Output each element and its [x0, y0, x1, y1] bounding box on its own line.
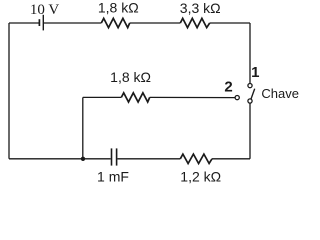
svg-text:1,2 kΩ: 1,2 kΩ — [180, 168, 221, 184]
svg-text:10 V: 10 V — [30, 2, 59, 18]
wire middle branch left horizontal — [83, 96, 122, 98]
resistor R3 1,8 kOhm middle — [121, 93, 149, 102]
battery B1 10 V — [39, 15, 43, 31]
wire bottom left segment — [9, 158, 111, 160]
resistor R2 3,3 kOhm top — [180, 18, 209, 27]
wire R1 to R2 — [130, 22, 181, 24]
wire right side upper (to switch terminal 1) — [249, 23, 251, 83]
svg-text:3,3 kΩ: 3,3 kΩ — [180, 0, 221, 16]
svg-text:1,8 kΩ: 1,8 kΩ — [98, 0, 139, 16]
svg-text:1: 1 — [251, 64, 259, 81]
svg-text:1,8 kΩ: 1,8 kΩ — [110, 69, 151, 85]
resistor R4 1,2 kOhm bottom — [180, 154, 212, 163]
switch terminal 1 circle — [248, 84, 252, 88]
wire left side — [8, 23, 10, 159]
wire top-left segment — [9, 22, 39, 24]
svg-text:1 mF: 1 mF — [97, 168, 129, 184]
junction node (middle branch to bottom wire) — [81, 157, 85, 161]
wire right side lower (from switch pole) — [249, 103, 251, 159]
switch pole circle — [248, 99, 252, 103]
wire middle branch right horizontal to terminal 2 — [150, 96, 235, 98]
wire R4 to bottom-right corner — [212, 158, 250, 160]
capacitor C1 1 mF — [112, 148, 117, 165]
wire capacitor to R4 — [117, 158, 180, 160]
resistor R1 1,8 kOhm top — [101, 18, 129, 27]
wire R2 to top-right corner — [210, 22, 250, 24]
switch arm — [251, 89, 255, 100]
svg-text:Chave: Chave — [261, 86, 299, 101]
switch terminal 2 circle — [235, 96, 239, 100]
wire middle branch vertical — [82, 97, 84, 158]
wire battery to R1 — [44, 22, 101, 24]
svg-text:2: 2 — [224, 78, 232, 95]
